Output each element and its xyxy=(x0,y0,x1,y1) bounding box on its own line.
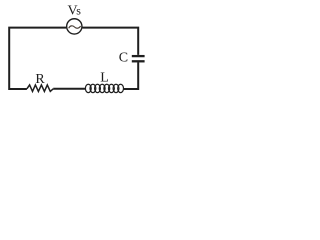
svg-text:R: R xyxy=(35,72,45,87)
svg-text:C: C xyxy=(119,50,128,65)
svg-text:L: L xyxy=(100,71,109,86)
svg-text:s: s xyxy=(76,4,81,18)
